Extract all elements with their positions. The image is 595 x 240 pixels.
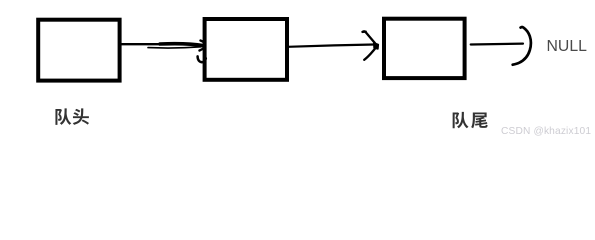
arrow 2 shaft (box2 to box3) — [288, 45, 374, 47]
arrow 1 head lower stroke — [148, 47, 201, 48]
svg-text:NULL: NULL — [547, 38, 588, 55]
arrow 3 shaft (box3 to NULL) — [471, 42, 523, 45]
null bracket ) — [513, 27, 531, 65]
node box 3 (queue tail) — [384, 19, 465, 78]
arrow 1 shaft (box1 to box2) — [121, 43, 180, 45]
svg-text:CSDN @khazix101: CSDN @khazix101 — [501, 126, 591, 137]
arrow 2 tip blob — [374, 43, 378, 49]
arrow 1 tip curl — [200, 41, 206, 51]
arrow 1 head upper stroke — [160, 44, 204, 46]
arrow 2 head — [362, 31, 377, 59]
node box 1 (queue head) — [38, 20, 119, 81]
label 队尾 (queue tail) — [453, 112, 488, 128]
arrow 1 lower hook — [198, 56, 206, 62]
node box 2 — [205, 19, 287, 80]
arrow 2 top flick — [363, 31, 366, 33]
label 队头 (queue head) — [55, 108, 89, 124]
